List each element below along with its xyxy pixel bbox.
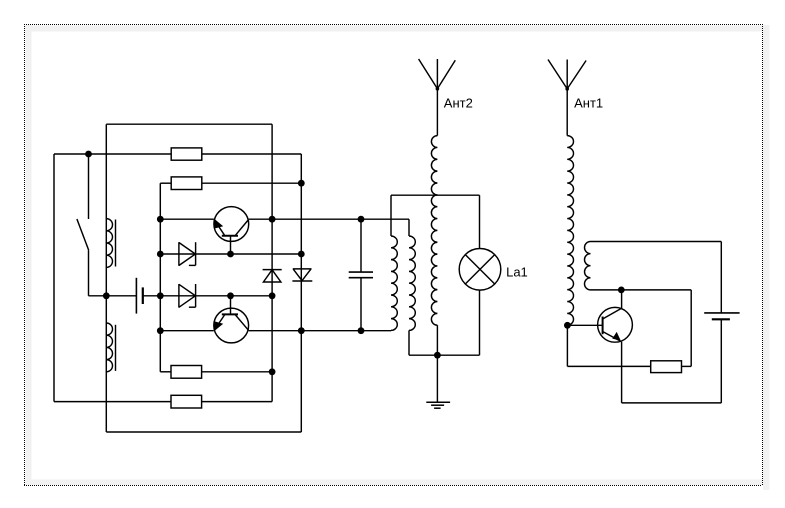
- diode VD2: [179, 284, 196, 308]
- wire R3 right lead: [202, 371, 273, 373]
- transformer winding W1: [391, 236, 397, 330]
- resistor R5: [651, 361, 682, 373]
- wire Q3 base lead: [567, 324, 602, 326]
- wire outer box bottom: [106, 431, 301, 433]
- antenna Ant2 symbol: [419, 59, 456, 91]
- wire rail1 right segment to W2: [249, 218, 409, 220]
- battery GB2 short plate: [712, 318, 730, 320]
- node rail3 dots: [157, 292, 276, 299]
- wire antenna Ant2 lead: [436, 89, 438, 136]
- wire W2 top lead: [408, 219, 410, 236]
- svg-text:La1: La1: [506, 264, 528, 279]
- resistor R2: [171, 177, 202, 190]
- wire outer box left vertical: [105, 124, 107, 432]
- ground symbol: [426, 402, 450, 408]
- wire R4 right lead: [202, 401, 273, 403]
- antenna Ant1 symbol: [548, 60, 586, 91]
- wire R4 left lead: [54, 401, 171, 403]
- svg-text:Ант1: Ант1: [574, 96, 603, 111]
- wire W3 bottom to ground: [436, 325, 438, 402]
- wire bottom return: [622, 402, 722, 404]
- antenna winding W3: [431, 136, 437, 326]
- node rail4 dots: [157, 327, 364, 334]
- node collector junction dot: [618, 287, 625, 294]
- resistor R3: [171, 366, 202, 379]
- wire W1-top to lamp: [391, 194, 480, 196]
- wire switch to lower rail: [88, 250, 90, 296]
- node W4 bottom junction dot: [564, 322, 571, 329]
- relay coil L2 (bumps): [106, 323, 112, 372]
- wire right bus x=272: [271, 124, 273, 401]
- wire antenna Ant1 lead: [566, 89, 568, 136]
- diode VD1: [179, 242, 196, 266]
- wire Q3 emitter lead: [621, 342, 623, 403]
- battery GB1 long plate: [135, 278, 137, 314]
- battery GB2 long plate: [704, 312, 739, 314]
- switch SA1 fixed-contact lead: [88, 154, 90, 219]
- transistor Q2 (VT2): [214, 296, 249, 343]
- transistor Q3 (VT3): [598, 307, 633, 342]
- wire W2 bottom L: [409, 330, 437, 355]
- resistor R4: [171, 395, 202, 408]
- node transformer bottom junction dot: [434, 352, 441, 359]
- wire rail4 right segment to W1: [249, 330, 391, 332]
- faint scan band right: [763, 25, 770, 490]
- wire R1 right lead: [202, 153, 301, 155]
- wire left bus x=160: [159, 183, 161, 372]
- wire rail2: [160, 253, 301, 255]
- wire R2 right lead: [202, 182, 301, 184]
- feedback winding W5: [585, 242, 591, 290]
- svg-text:Ант2: Ант2: [444, 96, 473, 111]
- wire rail1 left segment: [160, 218, 214, 220]
- relay coil L1 core bar: [115, 220, 117, 267]
- relay coil L2 core bar: [115, 325, 117, 371]
- wire battery GB1 left lead: [106, 295, 136, 297]
- wire outer box top: [106, 123, 272, 125]
- node R1/x301 junction dot: [298, 180, 305, 187]
- wire battery GB1 right lead / rail 3: [143, 295, 272, 297]
- transistor Q1 (VT1): [214, 207, 249, 254]
- wire top-left horizontal (node to R1): [54, 153, 171, 155]
- transformer winding W2: [409, 236, 415, 330]
- wire W4 bottom L to R5: [567, 325, 650, 366]
- node rail1 dots: [157, 216, 364, 223]
- node A junction dot: [85, 151, 92, 158]
- node relay tap junction dot: [103, 292, 110, 299]
- wire R3 left lead: [160, 371, 171, 373]
- relay coil L1 (bumps): [106, 219, 112, 268]
- wire bottom to lamp: [437, 354, 479, 356]
- node rail2 dots: [157, 251, 305, 258]
- wire R2 left lead: [160, 182, 171, 184]
- wire switch bottom to relay tap: [89, 295, 107, 297]
- wire collector to R5: [591, 290, 692, 367]
- capacitor C1: [349, 219, 373, 331]
- diode VD3 (points up): [263, 270, 282, 282]
- faint scan band top: [25, 26, 762, 32]
- wire battery GB2 bottom lead: [720, 319, 722, 403]
- lamp La1: [459, 195, 501, 355]
- faint scan band left: [26, 25, 32, 485]
- wire R5 right lead: [682, 365, 692, 367]
- wire rail4 left segment: [160, 330, 214, 332]
- wire Q3 collector lead: [621, 290, 623, 308]
- wire W1 top lead: [390, 195, 392, 236]
- battery GB1 short plate: [142, 287, 144, 304]
- antenna winding W4: [567, 136, 573, 326]
- wire W5 top to battery: [591, 242, 722, 313]
- faint scan band bottom: [25, 480, 762, 486]
- resistor R1: [171, 148, 202, 160]
- diode VD4 (points down): [292, 269, 312, 281]
- node R3 right junction dot: [269, 368, 276, 375]
- switch SA1 arm: [77, 219, 89, 250]
- wire bias bus x=301: [300, 154, 302, 432]
- wire far-left vertical: [53, 154, 55, 402]
